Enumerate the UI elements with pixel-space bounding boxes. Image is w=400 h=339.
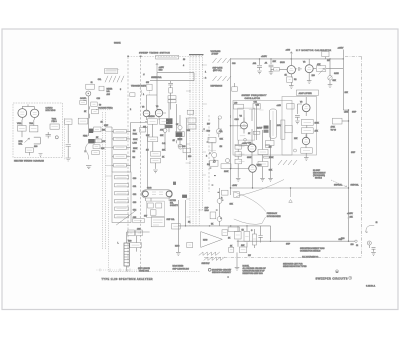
- svg-text:RESISTORS 1/2W 10%: RESISTORS 1/2W 10%: [243, 273, 263, 275]
- resistor R6 (far left): [65, 119, 72, 124]
- svg-text:-100V: -100V: [232, 185, 238, 187]
- resistor R109 below line: [228, 227, 239, 231]
- svg-text:FEEDBACK: FEEDBACK: [267, 212, 278, 215]
- resistor R81: [258, 162, 268, 167]
- wire osc internals: [235, 104, 257, 146]
- resistor R103: [222, 230, 228, 236]
- shield enclosure dash-dot bottom: [204, 257, 362, 259]
- connector J1 EXT TRIG: [86, 84, 95, 96]
- resistor R21b: [130, 93, 135, 97]
- resistor R64: [151, 152, 161, 157]
- tuned circuit L42 tall: [281, 120, 285, 139]
- resistor R47: [266, 145, 270, 148]
- svg-text:R90: R90: [341, 238, 344, 240]
- inset leader dotted: [64, 118, 66, 160]
- wire cal feed horizontal: [150, 73, 194, 81]
- notes block decimal-values: [243, 265, 267, 275]
- wire B+ rail horizontal: [231, 58, 344, 60]
- svg-text:SWEEP TIMING SWITCH: SWEEP TIMING SWITCH: [139, 52, 170, 54]
- svg-text:ATTEN: ATTEN: [170, 199, 176, 202]
- arrow (inset pot): [25, 138, 30, 143]
- svg-text:CONNECTOR DETAILS: CONNECTOR DETAILS: [300, 250, 321, 253]
- resistor R108: [239, 247, 246, 253]
- ground V6: [304, 153, 309, 160]
- line sweep takeoff cluster: [331, 112, 358, 132]
- svg-text:100: 100: [351, 244, 354, 246]
- svg-text:5: 5: [120, 89, 121, 91]
- svg-text:OSC: OSC: [235, 119, 240, 121]
- resistor R61c: [168, 96, 176, 99]
- supply arrow +100V: [290, 52, 293, 59]
- svg-text:1M: 1M: [146, 149, 149, 151]
- timing ladder right rail: [130, 123, 132, 173]
- wire amp internals: [297, 104, 306, 138]
- svg-text:L40: L40: [234, 102, 237, 104]
- resistor R19: [92, 151, 99, 155]
- svg-text:SEE PARTS LIST FOR: SEE PARTS LIST FOR: [283, 262, 303, 265]
- svg-text:SWEEP/CAL: SWEEP/CAL: [151, 76, 162, 79]
- capacitor C50: [115, 176, 129, 179]
- wire V1 grid: [271, 69, 287, 72]
- switch bus connection stubs: [186, 64, 207, 217]
- capacitor C64 (dark): [176, 132, 182, 137]
- terminal circle out: [355, 240, 357, 242]
- svg-text:HTR WDG: HTR WDG: [46, 110, 56, 112]
- label box T101 (inset): [50, 124, 59, 129]
- svg-text:2: 2: [130, 109, 131, 111]
- svg-text:1M: 1M: [133, 130, 136, 132]
- label box trigger input: [104, 69, 118, 74]
- resistor R14: [94, 127, 101, 132]
- switch wafer slashes group 2: [213, 58, 232, 63]
- resistor R97: [133, 218, 144, 222]
- svg-text:9-11/64-1: 9-11/64-1: [366, 286, 376, 288]
- svg-text:L: L: [118, 243, 119, 245]
- capacitor C101 (inset): [46, 132, 51, 138]
- capacitor C55: [115, 215, 129, 218]
- label box timing resistors: [156, 55, 179, 59]
- resistor R42: [287, 104, 294, 110]
- resistor R7: [301, 119, 313, 125]
- junction dots output line: [270, 241, 349, 242]
- wire x176: [176, 104, 178, 143]
- svg-text:SWP CAL: SWP CAL: [167, 218, 175, 221]
- svg-text:C90: C90: [137, 229, 140, 231]
- junction dots mag line: [185, 225, 248, 226]
- svg-text:C80: C80: [248, 142, 251, 144]
- resistor R96b: [150, 210, 156, 215]
- potentiometer R101: [217, 199, 222, 204]
- svg-text:AMPLIFIER: AMPLIFIER: [299, 92, 313, 95]
- inset heater-wiring diagram enclosure: [13, 103, 63, 158]
- wire ladder top feed: [105, 123, 147, 128]
- svg-text:SWEEPER CIRCUITS: SWEEPER CIRCUITS: [316, 276, 348, 280]
- resistor R102 (inset): [30, 126, 38, 132]
- value labels scattered (component values): [84, 59, 358, 257]
- potentiometer R70 cal: [216, 116, 221, 138]
- ground R66: [178, 145, 183, 148]
- svg-text:TO V9: TO V9: [331, 129, 336, 131]
- svg-text:.01: .01: [265, 63, 268, 65]
- connector J2 out: [339, 222, 378, 256]
- svg-text:LINE: LINE: [344, 112, 349, 114]
- svg-text:J1: J1: [91, 82, 93, 84]
- resistor R13: [78, 118, 88, 124]
- leader arc lower: [234, 217, 266, 224]
- svg-text:500K: 500K: [133, 139, 138, 141]
- ground R5: [328, 85, 333, 88]
- svg-text:CAL: CAL: [98, 78, 102, 81]
- resistor R4 top: [322, 51, 329, 56]
- svg-text:SEE INTERCONNECT DIAG: SEE INTERCONNECT DIAG: [300, 247, 325, 250]
- capacitor C9: [295, 116, 300, 121]
- resistor R99: [130, 243, 142, 248]
- capacitor C52: [115, 192, 129, 195]
- wire R72 down: [212, 142, 214, 160]
- resistor R11: [91, 102, 97, 106]
- resistor R51: [114, 137, 127, 140]
- wire sweep out line: [231, 187, 349, 189]
- wire right col: [263, 120, 271, 178]
- switch link diagonal: [116, 211, 135, 225]
- svg-text:6DJ8: 6DJ8: [147, 188, 151, 190]
- ground C21: [269, 72, 274, 75]
- ganged switch dotted left 2: [104, 112, 106, 250]
- svg-text:12AU7: 12AU7: [257, 127, 263, 130]
- svg-text:5M: 5M: [133, 157, 136, 159]
- svg-text:MAG REGIS: MAG REGIS: [173, 265, 184, 268]
- sawtooth waveform upper: [199, 252, 220, 255]
- potentiometer R62: [163, 128, 167, 132]
- box value ticks: [19, 69, 350, 250]
- capacitor C45 (dark): [264, 130, 269, 133]
- svg-text:.001: .001: [253, 63, 257, 65]
- svg-text:J2: J2: [356, 245, 358, 247]
- svg-text:1: 1: [143, 94, 144, 96]
- shield enclosure dash-dot top stub: [345, 56, 362, 58]
- svg-text:+245V: +245V: [338, 48, 345, 50]
- resistor R71: [208, 137, 216, 142]
- svg-text:BAL: BAL: [107, 90, 110, 93]
- ground (inset): [39, 154, 43, 157]
- resistor R45: [285, 126, 292, 133]
- resistor R65: [151, 158, 161, 163]
- resistor R52: [114, 146, 127, 149]
- svg-text:COUPL: COUPL: [80, 98, 87, 100]
- switch wafer slashes group 3: [213, 76, 232, 81]
- resistor R100: [172, 223, 181, 229]
- ground R column: [236, 178, 241, 181]
- resistor R54: [114, 164, 127, 167]
- svg-text:1.5M: 1.5M: [133, 142, 138, 144]
- capacitor C20: [257, 59, 262, 70]
- potentiometer R5: [328, 59, 332, 85]
- svg-text:1M: 1M: [220, 146, 223, 148]
- ground mid col: [153, 170, 158, 173]
- resistor R85: [301, 148, 313, 153]
- dashed leader trig level: [96, 109, 111, 111]
- svg-text:+245: +245: [277, 105, 281, 107]
- switch wafer slashes group 1: [105, 76, 124, 83]
- amplifier shield enclosure: [282, 97, 317, 156]
- supply arrow +245 mid: [156, 63, 158, 72]
- coupling capacitor C2: [296, 67, 302, 71]
- wire sweep output line: [237, 240, 355, 242]
- tube V9: [155, 109, 166, 119]
- stamp dark model block: [208, 268, 232, 274]
- svg-text:R2: R2: [294, 79, 296, 81]
- wire V2 to R3: [313, 68, 343, 70]
- wire mag line: [178, 225, 270, 227]
- switch contact blobs: [127, 54, 223, 219]
- svg-text:4: 4: [183, 65, 184, 67]
- svg-text:SWP LENGTH ADJ: SWP LENGTH ADJ: [173, 268, 190, 271]
- switch wafer slashes group 4: [278, 160, 297, 165]
- svg-text:OSCILLATOR: OSCILLATOR: [245, 97, 261, 100]
- svg-text:(THOUSAND): (THOUSAND): [313, 174, 325, 177]
- svg-text:V8: V8: [142, 107, 144, 109]
- ground right col b: [268, 178, 273, 181]
- svg-text:R70: R70: [207, 130, 210, 132]
- svg-text:1: 1: [205, 72, 206, 74]
- timing capacitor bank enclosure: [112, 172, 131, 223]
- wire heater top: [22, 104, 34, 106]
- resistor R101a: [222, 190, 229, 195]
- resistor R60: [148, 119, 158, 124]
- switch bus wafer line 3: [195, 55, 197, 226]
- svg-text:X10: X10: [187, 130, 190, 132]
- svg-text:SCHMITT: SCHMITT: [170, 205, 179, 207]
- junction right rail sweep: [348, 109, 349, 110]
- amplifier triangle: [201, 232, 223, 248]
- circled plus mark: [349, 276, 352, 279]
- wire inset mid: [29, 137, 40, 155]
- wire mid col: [145, 122, 165, 138]
- svg-text:50: 50: [99, 105, 101, 107]
- tube V1 6AU6: [287, 59, 295, 78]
- ground left chain: [86, 166, 91, 169]
- resistor R82: [266, 141, 275, 146]
- switch box SW2: [146, 82, 152, 95]
- inductor L90 column: [124, 243, 129, 266]
- wire x186: [186, 118, 188, 160]
- potentiometer R66: [178, 126, 182, 130]
- wire pots: [219, 188, 221, 226]
- shield enclosure dash-dot right: [361, 57, 363, 258]
- tube V4B: [248, 144, 256, 165]
- switch bus wafer line 5: [201, 55, 203, 210]
- wire r108 down: [236, 252, 238, 267]
- potentiometer arrow R3: [319, 68, 325, 74]
- svg-text:C30: C30: [232, 63, 235, 65]
- resistor R30 tie-down: [232, 83, 238, 91]
- ganged switch dotted column bottom-left: [109, 200, 201, 272]
- svg-text:SW: SW: [144, 216, 147, 218]
- svg-text:50MHZ: 50MHZ: [114, 43, 121, 45]
- resistor R95: [148, 203, 154, 208]
- svg-text:SYNCHRONIZE: SYNCHRONIZE: [267, 216, 281, 218]
- svg-text:FINE: FINE: [83, 135, 88, 137]
- calibration tick row: [97, 269, 141, 271]
- svg-text:2W: 2W: [248, 255, 251, 257]
- resistor R48: [264, 156, 271, 158]
- resistor R107: [229, 247, 234, 252]
- svg-text:MAG: MAG: [203, 239, 208, 242]
- svg-text:C50: C50: [133, 178, 136, 180]
- resistor R18: [93, 145, 100, 149]
- label sweep frequency oscillator: [242, 95, 268, 100]
- resistor R121: [188, 118, 196, 123]
- resistor R68: [183, 148, 191, 153]
- resistor R101 (inset): [18, 126, 27, 132]
- svg-text:COARSE FREQ: COARSE FREQ: [98, 107, 113, 110]
- svg-text:SWP: SWP: [351, 152, 356, 154]
- svg-text:C51: C51: [133, 186, 136, 188]
- junction dots B+ rail: [259, 58, 344, 59]
- svg-text:V9: V9: [156, 106, 158, 108]
- svg-text:SW: SW: [146, 82, 149, 84]
- tube V102 heater (inset): [30, 107, 38, 120]
- ladder bus stubs: [105, 131, 112, 176]
- resistor R120: [187, 110, 194, 114]
- switch section line SW B: [140, 57, 142, 272]
- svg-text:3M: 3M: [133, 151, 136, 153]
- wire x170: [170, 93, 172, 110]
- capacitor C106: [258, 231, 262, 243]
- inductor L40: [234, 104, 244, 109]
- capacitor C53: [115, 200, 129, 203]
- ground left col bottom: [176, 253, 181, 256]
- svg-text:C52: C52: [133, 194, 136, 196]
- resistor R63: [148, 137, 158, 142]
- ground far left: [66, 158, 71, 161]
- tube V101 heater (inset): [18, 106, 27, 119]
- wire R66 col: [179, 115, 181, 144]
- tube V8: [143, 110, 150, 120]
- capacitor C96 (dark): [173, 182, 176, 185]
- svg-text:V4: V4: [240, 116, 242, 118]
- svg-text:CAL: CAL: [219, 130, 223, 133]
- ganged switch dotted left: [101, 112, 103, 250]
- svg-text:AT SWP: AT SWP: [212, 52, 220, 55]
- oscillator inner shield box: [238, 108, 255, 140]
- resistor R78: [235, 159, 242, 164]
- svg-text:10: 10: [183, 59, 185, 61]
- switch header dashed link: [128, 56, 202, 58]
- svg-text:HORIZ COIL: HORIZ COIL: [139, 271, 149, 273]
- wire mid col 2: [153, 132, 165, 169]
- resistor R110: [187, 242, 193, 247]
- resistor R77: [235, 152, 242, 157]
- resistor R61b: [169, 88, 173, 93]
- potentiometer R73: [212, 152, 217, 157]
- svg-text:1M: 1M: [207, 164, 210, 166]
- svg-text:TYPE 1L20 SPECTRUM ANALYZER: TYPE 1L20 SPECTRUM ANALYZER: [102, 278, 153, 281]
- wire far left: [67, 124, 69, 157]
- resistor R105: [244, 231, 250, 241]
- resistor R46: [253, 131, 260, 134]
- wire range cluster: [238, 226, 271, 248]
- svg-text:+245V: +245V: [261, 56, 268, 58]
- resistor R123: [140, 128, 146, 133]
- resistor R102a: [210, 212, 216, 219]
- svg-text:V2: V2: [303, 61, 305, 63]
- capacitor C95 (dark): [182, 195, 187, 198]
- svg-text:SWP/DIV: SWP/DIV: [202, 263, 211, 265]
- wire left col bottom: [178, 200, 185, 252]
- tube V6: [302, 134, 309, 147]
- svg-text:MAG: MAG: [175, 244, 180, 247]
- potentiometer R102: [217, 217, 222, 222]
- resistor R10: [80, 100, 87, 104]
- svg-text:220: 220: [188, 156, 191, 158]
- svg-text:4.7: 4.7: [213, 162, 216, 164]
- svg-text:100K: 100K: [224, 171, 229, 173]
- text rows mixer: [107, 89, 113, 96]
- variable knob R16 (dark): [88, 139, 95, 143]
- switch bus wafer line 1: [189, 55, 191, 226]
- capacitor C5 (far left): [66, 144, 71, 149]
- resistor R122: [188, 125, 196, 129]
- potentiometer R74: [226, 159, 230, 163]
- resistor R75: [221, 164, 231, 169]
- svg-text:100K: 100K: [315, 123, 320, 125]
- svg-text:160V: 160V: [277, 125, 282, 127]
- svg-text:DISPERSION: DISPERSION: [211, 86, 223, 88]
- dashed leader to sweep line: [331, 180, 347, 187]
- wire feed to 147: [147, 126, 149, 188]
- svg-text:TRIGGER RATE: TRIGGER RATE: [131, 85, 147, 88]
- capacitor C51: [115, 184, 129, 187]
- tube V2 6AU6: [305, 59, 313, 77]
- note block K4: [313, 170, 326, 180]
- tube V5: [231, 165, 257, 188]
- wire R column: [237, 140, 239, 178]
- wire T1: [168, 103, 170, 132]
- svg-text:2: 2: [206, 155, 207, 157]
- svg-text:C60: C60: [182, 146, 185, 148]
- tube V4: [240, 116, 248, 134]
- wire mid bus: [230, 115, 232, 195]
- label amplifier box: [296, 90, 318, 95]
- tuned circuit L41 tall: [269, 109, 276, 138]
- svg-text:NOTE 2: NOTE 2: [315, 178, 322, 180]
- switch section line SW C: [208, 115, 210, 192]
- svg-text:ADJ: ADJ: [107, 93, 110, 96]
- variable knob R15 (dark): [89, 129, 93, 133]
- svg-text:SEE MOD SUMMARY: SEE MOD SUMMARY: [212, 271, 232, 274]
- switch bus wafer line 4: [198, 55, 200, 226]
- svg-text:ALL DECIMAL VALUES OF: ALL DECIMAL VALUES OF: [243, 267, 267, 270]
- svg-text:680K: 680K: [247, 157, 252, 159]
- resistor R104: [235, 231, 242, 239]
- ground V2 cathode: [307, 77, 312, 83]
- notes block see-interconnect: [300, 247, 325, 259]
- resistor R53: [114, 155, 127, 158]
- transformer T1 primary (dark): [166, 118, 173, 124]
- wire main B+ rail vertical: [230, 59, 232, 118]
- svg-text:C54: C54: [133, 209, 136, 211]
- svg-text:2: 2: [85, 151, 86, 153]
- svg-text:C41: C41: [254, 102, 257, 104]
- svg-text:SEMICONDUCTOR TYPES: SEMICONDUCTOR TYPES: [283, 266, 307, 268]
- svg-text:1M: 1M: [327, 60, 330, 62]
- label box relay: [151, 217, 164, 227]
- wire coil feed: [127, 232, 150, 272]
- resistor R98a: [128, 230, 135, 236]
- capacitor C41 box: [253, 104, 260, 110]
- ground C20: [257, 71, 262, 74]
